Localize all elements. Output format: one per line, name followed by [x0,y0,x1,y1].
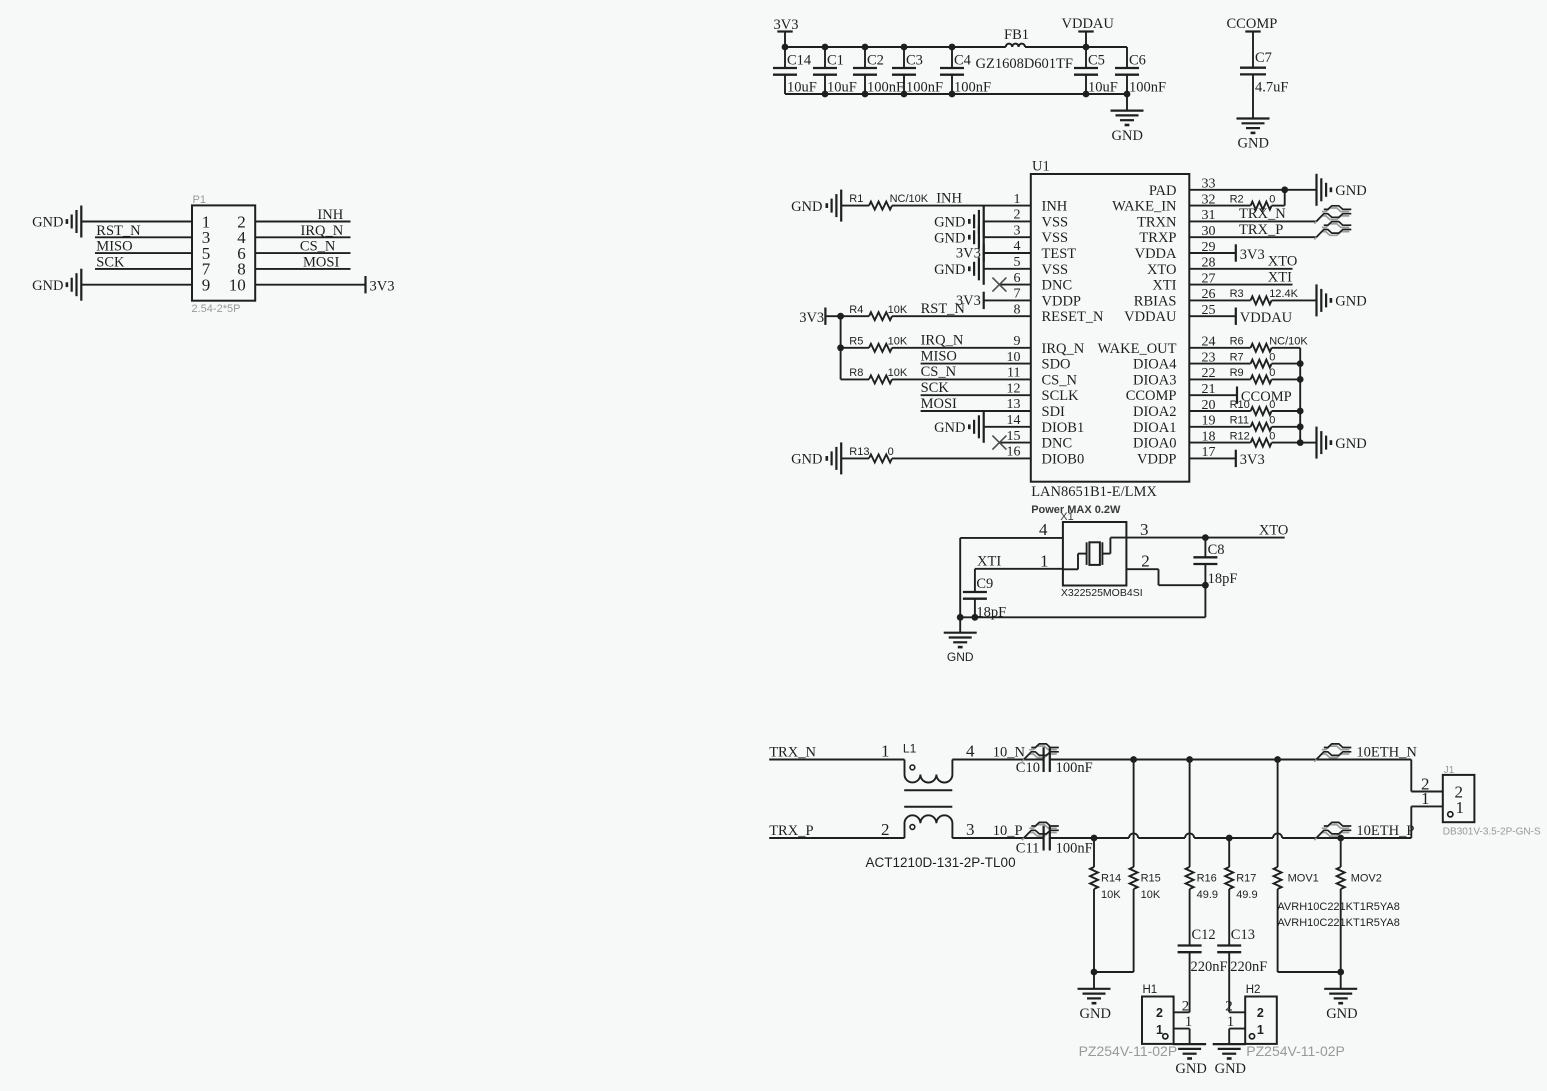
port TRX_P [1314,232,1349,240]
svg-text:XTO: XTO [1147,262,1177,278]
svg-text:H2: H2 [1246,984,1261,996]
svg-text:VDDAU: VDDAU [1124,309,1177,325]
svg-text:AVRH10C221KT1R5YA8: AVRH10C221KT1R5YA8 [1277,917,1400,929]
svg-text:XTO: XTO [1259,522,1289,538]
svg-text:CCOMP: CCOMP [1126,388,1177,404]
svg-text:R17: R17 [1236,873,1256,885]
ground (below C7) [1237,117,1270,119]
svg-text:DB301V-3.5-2P-GN-S: DB301V-3.5-2P-GN-S [1443,827,1541,838]
capacitor C1 10uF [824,47,826,68]
svg-text:R16: R16 [1197,873,1217,885]
svg-text:XTI: XTI [977,554,1001,570]
ground (R14/R15) [1093,972,1095,989]
svg-text:0: 0 [888,446,894,458]
ground (H2) [1213,1043,1246,1045]
svg-text:11: 11 [1007,366,1020,381]
svg-text:10_N: 10_N [993,744,1026,760]
svg-text:INH: INH [1042,199,1068,215]
transformer L1 primary winding [905,760,953,783]
ground (pin26) [1315,284,1317,316]
wire to J1 pin1 [1410,806,1412,838]
wire top bus 3V3 to FB1 [785,46,1006,48]
svg-text:AVRH10C221KT1R5YA8: AVRH10C221KT1R5YA8 [1277,901,1400,913]
port 10_P [1022,833,1057,841]
svg-text:U1: U1 [1032,159,1050,175]
resistor R17 49.9 [1228,838,1230,867]
svg-text:R7: R7 [1230,351,1244,363]
wire X1 pin3 XTO [1126,537,1284,539]
svg-text:H1: H1 [1143,984,1158,996]
resistor R2 0 (pin32 WAKE_IN) [1189,205,1250,207]
svg-text:VDDAU: VDDAU [1062,16,1115,32]
capacitor C11 100nF (series) [1042,826,1044,851]
capacitor C2 100nF [864,47,866,68]
svg-text:R6: R6 [1230,336,1244,348]
svg-text:R13: R13 [849,446,869,458]
net label XTO (pin28) [1189,268,1292,270]
svg-text:R9: R9 [1230,367,1244,379]
svg-text:DNC: DNC [1042,436,1073,452]
svg-text:1: 1 [1456,798,1465,817]
connector H1 box [1142,997,1174,1044]
svg-text:C8: C8 [1208,542,1225,558]
wire MOV1-MOV2 join [1278,971,1341,973]
svg-text:J1: J1 [1444,765,1455,776]
varistor MOV1 [1277,760,1279,868]
svg-text:10uF: 10uF [787,80,817,96]
svg-text:DNC: DNC [1042,278,1073,294]
svg-text:GND: GND [1335,294,1366,310]
svg-text:DIOA4: DIOA4 [1133,357,1177,373]
svg-text:RBIAS: RBIAS [1134,293,1177,309]
svg-text:0: 0 [1269,193,1275,205]
svg-text:3: 3 [966,820,975,839]
ground (pin18) [1315,427,1317,459]
capacitor C4 100nF [951,47,953,68]
svg-text:2: 2 [881,820,890,839]
svg-text:3V3: 3V3 [370,279,395,295]
svg-text:3V3: 3V3 [1240,247,1265,263]
svg-text:XTI: XTI [1152,278,1176,294]
svg-text:Power MAX 0.2W: Power MAX 0.2W [1031,504,1121,516]
svg-text:1: 1 [1185,1014,1193,1030]
resistor R13 0 [841,457,869,459]
op-amp U1 body (LAN8651B1-E/LMX IC box) [1031,174,1190,482]
svg-text:TRXN: TRXN [1137,214,1177,230]
wire TRX_P (pin30 TRXP) to port [1189,236,1316,238]
svg-text:10: 10 [1007,350,1021,365]
svg-text:100nF: 100nF [1056,840,1093,856]
wire pin18 bus to GND [1300,442,1316,444]
svg-text:GND: GND [1215,1061,1246,1077]
wire right resistor bus [1299,348,1301,443]
svg-text:GND: GND [1335,436,1366,452]
svg-text:CCOMP: CCOMP [1227,16,1278,32]
svg-text:X1: X1 [1060,511,1073,523]
wire FB1 to VDDAU node [1025,46,1127,48]
svg-text:R2: R2 [1230,193,1244,205]
net label XTI (pin27) [1189,284,1292,286]
resistor R10 0 (pin20) [1189,410,1250,412]
svg-text:16: 16 [1007,445,1021,460]
svg-text:10uF: 10uF [827,80,857,96]
svg-text:MOV1: MOV1 [1288,873,1319,885]
svg-text:10K: 10K [888,304,908,316]
svg-text:2.54-2*5P: 2.54-2*5P [192,303,241,315]
svg-text:GND: GND [791,452,822,468]
transformer L1 core [904,789,952,791]
svg-text:6: 6 [1014,271,1021,286]
resistor R1 NC/10K [841,205,869,207]
svg-text:SDO: SDO [1042,357,1071,373]
svg-text:12: 12 [1007,381,1021,396]
svg-text:SDI: SDI [1042,404,1066,420]
svg-text:3V3: 3V3 [799,310,824,326]
svg-text:GND: GND [1175,1061,1206,1077]
svg-text:100nF: 100nF [1056,760,1093,776]
port 10_N [1022,754,1057,762]
wire 3V3 rail vertical [825,315,869,317]
svg-text:RST_N: RST_N [921,301,966,317]
svg-text:C1: C1 [827,53,844,69]
svg-text:2: 2 [1257,1006,1264,1020]
ground (H1) [1173,1043,1206,1045]
no-connect X (U1 pin15 DNC) [999,442,1030,444]
connector J1 box [1443,775,1475,822]
svg-text:CCOMP: CCOMP [1241,389,1292,405]
svg-text:WAKE_IN: WAKE_IN [1112,199,1177,215]
svg-text:100nF: 100nF [954,80,991,96]
svg-text:3V3: 3V3 [956,246,981,262]
svg-text:R14: R14 [1101,873,1121,885]
svg-text:C5: C5 [1088,53,1105,69]
svg-text:TRX_N: TRX_N [1239,206,1286,222]
svg-text:GND: GND [32,215,63,231]
port 10ETH_P [1314,833,1349,841]
svg-text:2: 2 [1182,998,1190,1014]
svg-text:TEST: TEST [1042,246,1077,262]
svg-text:FB1: FB1 [1004,27,1029,43]
svg-text:VSS: VSS [1042,262,1069,278]
ground (MOV) [1340,972,1342,989]
svg-text:1: 1 [1014,192,1021,207]
svg-text:GND: GND [1335,183,1366,199]
svg-text:1: 1 [1257,1023,1264,1037]
net flag 3V3 (pin29 VDDA) [1189,252,1236,254]
svg-text:1: 1 [1421,789,1430,808]
resistor R14 10K [1093,838,1095,867]
connector P1 box [192,205,255,300]
svg-text:GZ1608D601TF: GZ1608D601TF [976,56,1073,72]
svg-text:0: 0 [1269,415,1275,427]
svg-text:PAD: PAD [1149,183,1177,199]
svg-text:18pF: 18pF [1208,571,1238,587]
resistor R7 0 (pin23) [1189,363,1250,365]
svg-text:CS_N: CS_N [921,364,957,380]
svg-text:CS_N: CS_N [1042,372,1078,388]
svg-text:DIOA1: DIOA1 [1133,420,1177,436]
capacitor C7 4.7uF [1240,67,1266,69]
resistor R12 0 (pin18) [1189,442,1250,444]
svg-text:C11: C11 [1016,840,1040,856]
svg-text:8: 8 [1014,302,1021,317]
svg-text:49.9: 49.9 [1236,889,1257,901]
svg-text:3: 3 [1140,520,1149,539]
wire bottom bus [785,93,1127,95]
svg-text:4.7uF: 4.7uF [1255,80,1288,96]
net flag CCOMP (pin21) [1189,394,1237,396]
svg-text:0: 0 [1269,367,1275,379]
resistor R8 10K CS_N [841,378,869,380]
wire L1 pin4 to C10 [952,759,1043,761]
svg-text:GND: GND [934,230,965,246]
svg-text:DIOB0: DIOB0 [1042,451,1085,467]
wire U1 pin33 PAD to GND [1189,189,1315,191]
svg-text:ACT1210D-131-2P-TL00: ACT1210D-131-2P-TL00 [866,855,1016,870]
svg-text:TRXP: TRXP [1139,230,1176,246]
svg-text:9: 9 [202,276,211,295]
svg-text:100nF: 100nF [906,80,943,96]
resistor R4 10K RST_N [869,312,892,320]
svg-text:3: 3 [1014,223,1021,238]
svg-text:1: 1 [1227,1014,1235,1030]
resistor R6 NC/10K (pin24) [1189,347,1250,349]
wire R14-R15 join [1094,971,1134,973]
svg-text:GND: GND [1080,1006,1111,1022]
svg-text:C2: C2 [867,53,884,69]
crystal X1 box [1063,522,1127,586]
svg-text:VDDP: VDDP [1137,451,1176,467]
svg-text:SCLK: SCLK [1042,388,1080,404]
svg-text:10_P: 10_P [993,823,1023,839]
svg-text:100nF: 100nF [1129,80,1166,96]
node junction dots top bus [782,44,789,51]
svg-text:9: 9 [1014,334,1021,349]
wire crystal gnd bus [960,616,1205,618]
capacitor C8 18pF [1204,538,1206,558]
svg-text:1: 1 [881,742,890,761]
capacitor C14 10uF [784,47,786,68]
svg-text:13: 13 [1007,397,1021,412]
svg-text:R8: R8 [849,367,863,379]
svg-text:2: 2 [1014,208,1021,223]
svg-text:VDDP: VDDP [1042,293,1081,309]
resistor R5 10K IRQ_N [841,347,869,349]
svg-text:INH: INH [936,190,962,206]
capacitor C6 100nF [1126,47,1128,68]
svg-text:VDDA: VDDA [1135,246,1177,262]
svg-text:GND: GND [32,278,63,294]
svg-text:IRQ_N: IRQ_N [1042,341,1085,357]
svg-text:RESET_N: RESET_N [1042,309,1105,325]
svg-text:220nF: 220nF [1191,959,1228,975]
svg-text:GND: GND [934,420,965,436]
wire C11 to 10ETH_P port (with hops) [1050,837,1129,839]
resistor R3 12.4K (pin26 RBIAS) [1189,299,1250,301]
svg-text:DIOA2: DIOA2 [1133,404,1177,420]
capacitor C10 100nF (series) [1042,747,1044,772]
capacitor C9 18pF [974,569,976,592]
svg-text:TRX_P: TRX_P [1239,222,1283,238]
svg-text:GND: GND [1326,1006,1357,1022]
ground (below C6) [1126,94,1128,111]
svg-text:12.4K: 12.4K [1269,288,1298,300]
resistor R16 49.9 [1189,760,1191,868]
svg-text:4: 4 [1039,520,1048,539]
net flag 3V3 (pin17 VDDP) [1189,457,1236,459]
svg-text:10ETH_P: 10ETH_P [1356,823,1414,839]
wire H1 pin2 [1174,1011,1190,1013]
svg-text:GND: GND [947,650,974,664]
node junction dots bottom bus [822,91,829,98]
svg-text:GND: GND [1112,128,1143,144]
svg-text:GND: GND [934,215,965,231]
wire C10 to 10ETH_N port [1050,759,1412,761]
svg-text:VSS: VSS [1042,214,1069,230]
svg-text:PZ254V-11-02P: PZ254V-11-02P [1079,1043,1178,1059]
svg-text:C6: C6 [1129,53,1146,69]
svg-text:X322525MOB4SI: X322525MOB4SI [1061,587,1143,599]
resistor R15 10K [1133,760,1135,868]
ground (crystal) [959,617,961,632]
svg-text:XTI: XTI [1268,269,1292,285]
svg-text:NC/10K: NC/10K [890,193,929,205]
svg-text:3V3: 3V3 [1240,452,1265,468]
svg-text:TRX_P: TRX_P [769,823,813,839]
svg-text:220nF: 220nF [1230,959,1267,975]
svg-text:IRQ_N: IRQ_N [921,333,964,349]
wire H2 pin1 to gnd [1229,1028,1245,1030]
svg-text:GND: GND [791,199,822,215]
svg-text:10K: 10K [888,335,908,347]
svg-text:MOSI: MOSI [921,396,957,412]
svg-text:VSS: VSS [1042,230,1069,246]
wire X1 pin2 [1126,568,1158,570]
wire L1 pin3 to C11 [952,837,1043,839]
crystal X1 internal symbol [1063,568,1078,570]
svg-text:R12: R12 [1230,430,1250,442]
resistor R11 0 (pin19) [1189,426,1250,428]
transformer L1 secondary winding [905,815,953,838]
svg-text:WAKE_OUT: WAKE_OUT [1098,341,1177,357]
svg-text:10K: 10K [888,367,908,379]
svg-text:VDDAU: VDDAU [1240,310,1293,326]
svg-text:C9: C9 [976,576,993,592]
svg-text:MISO: MISO [921,348,957,364]
svg-text:C7: C7 [1255,50,1272,66]
svg-text:C14: C14 [787,53,812,69]
svg-text:DIOA0: DIOA0 [1133,436,1177,452]
svg-text:4: 4 [966,742,975,761]
resistor R9 0 (pin22) [1189,378,1250,380]
port 10ETH_N [1314,754,1349,762]
svg-text:GND: GND [934,262,965,278]
port TRX_N [1314,216,1349,224]
svg-text:14: 14 [1007,413,1021,428]
svg-text:C10: C10 [1016,760,1040,776]
varistor MOV2 [1340,838,1342,867]
svg-text:10K: 10K [1141,889,1161,901]
svg-text:C12: C12 [1192,927,1216,943]
svg-text:DIOA3: DIOA3 [1133,372,1177,388]
capacitor C3 100nF [903,47,905,68]
svg-text:0: 0 [1269,351,1275,363]
wire H2 pin2 [1229,1011,1245,1013]
wire to J1 pin2 [1410,760,1412,792]
svg-text:MOV2: MOV2 [1351,873,1382,885]
svg-text:2: 2 [1156,1006,1163,1020]
svg-text:2: 2 [1225,998,1233,1014]
capacitor C5 10uF [1085,47,1087,68]
svg-text:100nF: 100nF [867,80,904,96]
svg-text:7: 7 [1014,287,1021,302]
svg-text:C13: C13 [1231,927,1255,943]
svg-text:10: 10 [229,276,246,295]
no-connect X (U1 pin6 DNC) [999,284,1030,286]
svg-text:LAN8651B1-E/LMX: LAN8651B1-E/LMX [1031,484,1157,500]
svg-text:L1: L1 [903,742,917,756]
svg-text:15: 15 [1007,429,1021,444]
svg-text:NC/10K: NC/10K [1269,336,1308,348]
svg-text:4: 4 [1014,239,1021,254]
svg-text:XTO: XTO [1268,254,1298,270]
ferrite bead FB1 [1006,44,1025,47]
svg-text:10ETH_N: 10ETH_N [1356,744,1417,760]
net flag VDDAU (pin25) [1189,315,1236,317]
svg-text:1: 1 [1156,1023,1163,1037]
svg-text:R3: R3 [1230,288,1244,300]
net flag 3V3 (P1 pin 10) [255,284,365,286]
svg-text:10K: 10K [1101,889,1121,901]
svg-text:C4: C4 [954,53,972,69]
svg-text:R15: R15 [1141,873,1161,885]
wire X1 pin4 [960,537,1063,539]
svg-text:0: 0 [1269,430,1275,442]
svg-text:C3: C3 [906,53,923,69]
wire H1 pin1 to gnd [1174,1028,1190,1030]
svg-text:TRX_N: TRX_N [769,744,816,760]
svg-text:2: 2 [1141,552,1150,571]
svg-text:DIOB1: DIOB1 [1042,420,1085,436]
svg-text:SCK: SCK [921,380,950,396]
svg-text:P1: P1 [193,194,206,206]
ground (pin33) [1315,174,1317,206]
svg-text:PZ254V-11-02P: PZ254V-11-02P [1246,1043,1345,1059]
svg-text:R4: R4 [849,304,863,316]
svg-text:R11: R11 [1230,415,1249,427]
svg-text:5: 5 [1014,255,1021,270]
svg-text:R5: R5 [849,335,863,347]
wire TRX_N (pin31 TRXN) to port [1189,220,1316,222]
svg-text:10uF: 10uF [1088,80,1118,96]
svg-text:R1: R1 [849,193,863,205]
svg-text:GND: GND [1238,136,1269,152]
svg-text:1: 1 [1040,552,1049,571]
svg-text:49.9: 49.9 [1197,889,1218,901]
connector H2 box [1245,997,1277,1044]
